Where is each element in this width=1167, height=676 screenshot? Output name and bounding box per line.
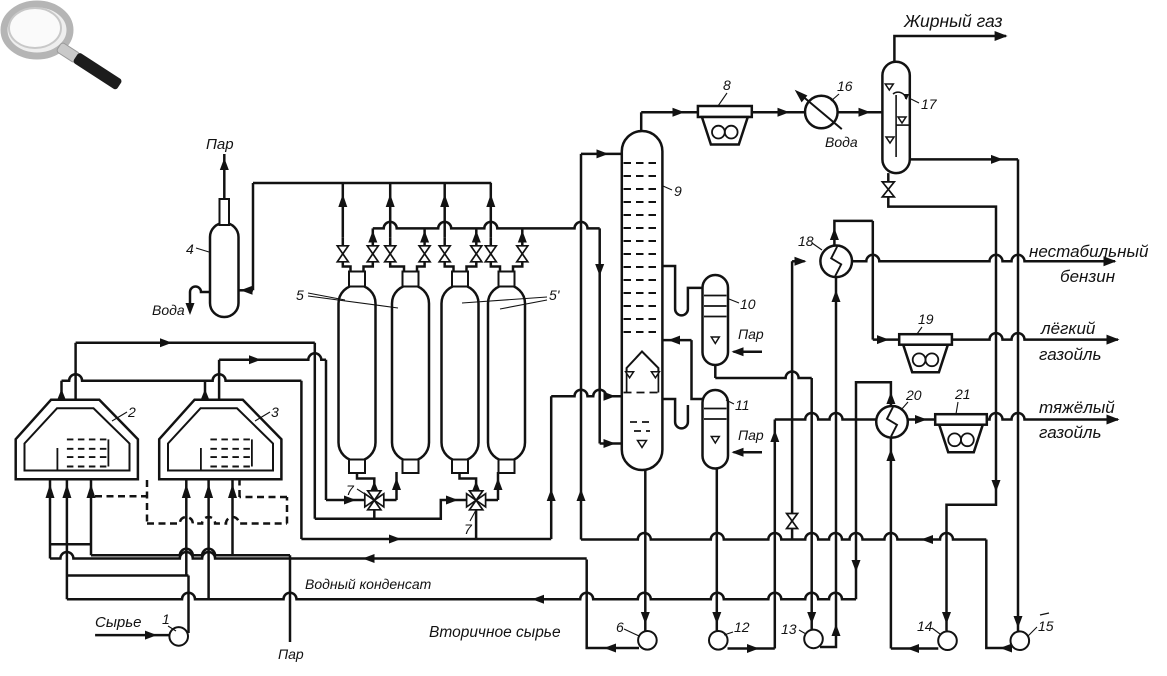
svg-text:Вода: Вода bbox=[152, 302, 185, 318]
svg-text:2: 2 bbox=[127, 404, 136, 420]
svg-text:7: 7 bbox=[464, 521, 473, 537]
svg-text:Пар: Пар bbox=[278, 646, 304, 662]
svg-text:15: 15 bbox=[1038, 618, 1054, 634]
svg-text:12: 12 bbox=[734, 619, 750, 635]
svg-text:бензин: бензин bbox=[1060, 267, 1116, 286]
svg-text:16: 16 bbox=[837, 78, 853, 94]
svg-text:10: 10 bbox=[740, 296, 756, 312]
svg-text:Сырье: Сырье bbox=[95, 614, 141, 631]
svg-text:8: 8 bbox=[723, 77, 731, 93]
svg-text:6: 6 bbox=[616, 619, 624, 635]
svg-text:14: 14 bbox=[917, 618, 933, 634]
svg-text:17: 17 bbox=[921, 96, 938, 112]
svg-text:7: 7 bbox=[346, 482, 355, 498]
svg-text:лёгкий: лёгкий bbox=[1040, 319, 1096, 338]
svg-text:Водный конденсат: Водный конденсат bbox=[305, 576, 432, 592]
svg-text:Пар: Пар bbox=[738, 326, 764, 342]
svg-text:9: 9 bbox=[674, 183, 682, 199]
svg-text:Пар: Пар bbox=[206, 136, 234, 153]
svg-text:1: 1 bbox=[162, 611, 170, 627]
svg-text:5: 5 bbox=[296, 287, 304, 303]
svg-text:Пар: Пар bbox=[738, 427, 764, 443]
svg-text:Вода: Вода bbox=[825, 134, 858, 150]
svg-text:20: 20 bbox=[905, 387, 922, 403]
svg-text:18: 18 bbox=[798, 233, 814, 249]
svg-text:5': 5' bbox=[549, 287, 561, 303]
svg-text:19: 19 bbox=[918, 311, 934, 327]
svg-text:21: 21 bbox=[954, 386, 971, 402]
svg-text:нестабильный: нестабильный bbox=[1029, 242, 1149, 261]
svg-text:11: 11 bbox=[735, 397, 750, 413]
svg-text:4: 4 bbox=[186, 241, 194, 257]
svg-text:Жирный газ: Жирный газ bbox=[903, 11, 1003, 31]
svg-text:газойль: газойль bbox=[1039, 423, 1101, 442]
svg-text:тяжёлый: тяжёлый bbox=[1039, 398, 1115, 417]
svg-text:газойль: газойль bbox=[1039, 345, 1101, 364]
svg-text:3: 3 bbox=[271, 404, 279, 420]
svg-text:Вторичное сырье: Вторичное сырье bbox=[429, 624, 561, 641]
svg-text:13: 13 bbox=[781, 621, 797, 637]
